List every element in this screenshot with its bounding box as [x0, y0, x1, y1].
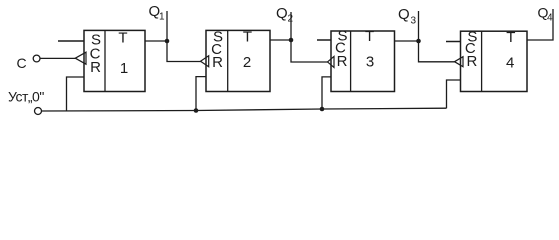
Q3 output stub — [418, 11, 420, 41]
U2 pin label S — [213, 28, 223, 45]
svg-text:3: 3 — [411, 16, 417, 27]
svg-text:Q: Q — [398, 6, 410, 23]
label reset Уст "0" — [8, 89, 44, 105]
U1 pin label S — [91, 31, 101, 48]
U1 S stub — [58, 40, 84, 42]
wire Q1 net — [145, 40, 167, 42]
label Q3 — [398, 6, 417, 27]
U2 R wire — [196, 77, 206, 111]
junction dot Q2 — [289, 38, 294, 43]
svg-text:2: 2 — [288, 14, 294, 25]
U3 pin label C — [335, 39, 346, 56]
terminal C — [33, 55, 40, 62]
label C — [17, 55, 27, 71]
wire Q1 to U2 C — [167, 41, 202, 62]
U3 divider — [350, 31, 352, 92]
svg-text:R: R — [212, 54, 223, 71]
wire C input — [40, 57, 76, 59]
U4 pin label S — [467, 29, 477, 46]
U2 pin label C — [211, 41, 222, 58]
U1 R wire — [67, 77, 85, 111]
flip-flop U4 body — [461, 31, 528, 91]
svg-text:Уст„0": Уст„0" — [8, 89, 44, 105]
svg-text:4: 4 — [506, 54, 514, 71]
svg-text:T: T — [365, 28, 374, 45]
wire Q2 net — [270, 39, 291, 41]
svg-text:R: R — [466, 53, 477, 70]
U3 R wire — [322, 77, 331, 109]
wire Q2 to U3 C — [291, 40, 328, 62]
U3 pin label R — [337, 53, 348, 70]
U2 label 2 — [243, 54, 251, 71]
U1 pin label R — [90, 59, 101, 76]
U4 S stub — [446, 41, 461, 43]
Q1 output stub — [166, 11, 168, 41]
svg-text:T: T — [506, 29, 515, 46]
U1 label 1 — [120, 60, 128, 77]
U4 label 4 — [506, 54, 514, 71]
svg-text:C: C — [17, 55, 27, 71]
reset bus wire — [42, 108, 447, 111]
flip-flop U2 body — [206, 30, 270, 91]
svg-text:R: R — [337, 53, 348, 70]
U3 pin label S — [337, 28, 347, 45]
dynamic input triangle U2 — [201, 56, 209, 67]
dynamic input triangle U3 — [328, 56, 335, 67]
junction dot reset U2 — [194, 108, 199, 113]
junction dot Q3 — [416, 39, 421, 44]
U1 pin label C — [90, 45, 101, 62]
U1 label T — [118, 29, 127, 46]
flip-flop U1 body — [84, 30, 145, 91]
U4 pin label R — [466, 53, 477, 70]
svg-text:3: 3 — [366, 53, 374, 70]
wire Q4 net — [527, 9, 553, 40]
junction dot Q1 — [165, 39, 170, 44]
svg-text:T: T — [243, 28, 252, 45]
U1 divider — [104, 30, 106, 91]
U4 pin label C — [465, 40, 476, 57]
U2 label T — [243, 28, 252, 45]
wire Q3 to U4 C — [419, 41, 456, 62]
svg-text:1: 1 — [159, 12, 165, 23]
label Q2 — [276, 5, 294, 25]
U4 label T — [506, 29, 515, 46]
flip-flop U3 body — [331, 31, 395, 92]
U3 label T — [365, 28, 374, 45]
U3 S stub — [317, 39, 331, 41]
U4 divider — [481, 31, 483, 91]
Q2 output stub — [290, 12, 292, 40]
svg-text:R: R — [90, 59, 101, 76]
label Q1 — [149, 3, 166, 23]
U3 label 3 — [366, 53, 374, 70]
svg-text:2: 2 — [243, 54, 251, 71]
terminal reset — [35, 108, 42, 115]
dynamic input triangle U1 — [75, 52, 86, 64]
svg-text:1: 1 — [120, 60, 128, 77]
svg-text:T: T — [118, 29, 127, 46]
wire Q3 net — [395, 40, 419, 42]
svg-text:Q: Q — [276, 5, 288, 22]
junction dot reset U3 — [320, 107, 325, 112]
label Q4 — [538, 5, 554, 24]
U4 R wire — [447, 80, 461, 108]
U2 divider — [227, 30, 229, 91]
dynamic input triangle U4 — [455, 57, 464, 67]
U2 pin label R — [212, 54, 223, 71]
svg-text:4: 4 — [547, 13, 553, 24]
